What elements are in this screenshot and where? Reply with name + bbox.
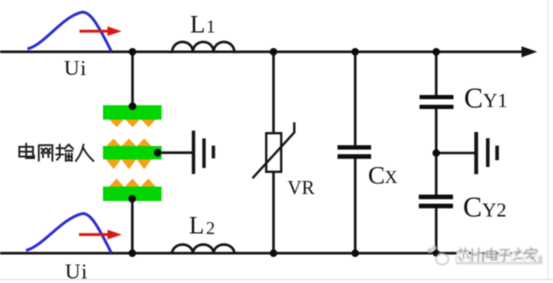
svg-text:Ui: Ui — [64, 56, 87, 80]
svg-text:2: 2 — [206, 218, 215, 238]
svg-text:Ui: Ui — [65, 259, 88, 283]
svg-text:L: L — [189, 213, 204, 240]
svg-text:C: C — [368, 160, 385, 189]
svg-text:Y1: Y1 — [483, 90, 507, 112]
svg-text:L: L — [190, 11, 205, 38]
svg-text:Y2: Y2 — [482, 199, 506, 221]
svg-text:VR: VR — [288, 178, 315, 199]
svg-text:1: 1 — [206, 17, 215, 37]
svg-text:C: C — [463, 193, 482, 224]
svg-text:C: C — [464, 83, 483, 114]
svg-text:X: X — [385, 167, 398, 187]
